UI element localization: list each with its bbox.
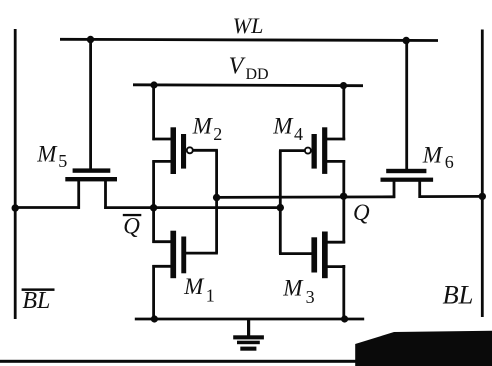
wire Qbar right segment (M5 to right inverter gates) [104,206,280,209]
transistor M4 channel bar [322,127,327,174]
wire BL rail (right vertical) [481,30,484,318]
wire M4 drain stub [326,160,345,163]
wire VDD to M2 source [152,85,155,140]
wire M6 right source stub [418,181,421,199]
label M1 [183,274,215,306]
wire M1 source to ground [152,265,155,319]
junction dot left gates to Q wire [213,194,220,201]
black redaction blob bottom right [355,331,492,366]
svg-text:1: 1 [206,286,215,306]
label VDD [229,54,269,84]
label M2 [192,113,223,144]
transistor M1 channel bar [170,231,176,279]
svg-text:M: M [36,141,58,166]
wire ground stub [247,319,250,337]
wire VDD horizontal [133,83,363,87]
label BLbar [22,288,55,314]
wire Q right segment (M6 to BL) [419,195,483,198]
wire M5 gate from WL [89,40,92,170]
transistor M6 channel bar [381,178,434,182]
wire M1 source stub [152,265,171,268]
junction dot Qbar node [150,204,157,211]
wire M5 left source stub [77,180,80,209]
junction dot ground right [341,315,348,322]
svg-text:2: 2 [213,124,222,144]
wire M4 gate stub [279,149,305,152]
junction dot WL left [87,36,94,43]
label Qbar [123,214,142,239]
transistor M2 channel bar [171,127,177,174]
svg-text:M: M [272,114,294,139]
wire M3 gate stub [279,252,312,255]
wire M4 source stub [326,138,345,141]
svg-text:V: V [229,54,246,80]
label M6 [422,142,454,172]
junction dot VDD right [340,82,347,89]
junction dot Q node [340,193,347,200]
wire BLbar rail (left vertical) [14,29,17,319]
wire M3 source to ground [342,265,345,319]
svg-text:M: M [192,113,214,138]
svg-text:M: M [282,276,304,301]
wire right inverter gate vertical [279,151,282,254]
wire M2 drain to Qbar node to M1 drain [152,160,155,243]
label M3 [282,276,314,308]
bottom border line [0,360,492,363]
transistor M1 gate bar [181,237,186,274]
svg-text:Q: Q [123,214,140,239]
wire ground rail horizontal [135,318,364,321]
junction dot BL node [479,193,486,200]
svg-text:3: 3 [306,287,315,307]
junction dot WL right [403,37,410,44]
transistor M6 gate bar [386,169,426,173]
wire M3 drain stub [326,241,345,244]
svg-text:BL: BL [443,280,474,310]
svg-text:DD: DD [246,66,269,83]
junction dot BLbar node [12,204,19,211]
ground bar 3 [240,347,256,351]
wire left inverter gate vertical [215,150,218,253]
wire M3 source stub [326,265,345,268]
svg-text:4: 4 [294,124,303,144]
wire Q left segment (left inverter gates to M6) [217,195,396,198]
ground bar 1 [233,335,264,339]
wire M6 gate from WL [405,41,408,170]
svg-text:BL: BL [22,288,50,314]
label Q [353,200,370,225]
junction dot right gates to Qbar wire [277,204,284,211]
svg-text:Q: Q [353,200,370,225]
wire M5 right drain stub [104,180,107,209]
junction dot ground left [151,315,158,322]
label M4 [272,114,303,145]
ground bar 2 [237,341,260,345]
svg-text:5: 5 [58,151,67,171]
wire M1 drain stub [152,240,171,243]
wire M6 left drain stub [393,181,396,199]
wire M2 gate stub [193,149,218,152]
svg-text:M: M [422,142,444,167]
wire M2 drain stub [152,160,171,163]
wire M2 source stub [152,138,171,141]
transistor M3 gate bar [311,237,317,272]
svg-text:WL: WL [233,13,264,38]
transistor M4 gate bar [312,134,317,169]
transistor M3 channel bar [322,232,328,279]
wire Qbar left segment (BLbar to M5) [15,206,80,209]
label WL [233,13,264,38]
svg-text:M: M [183,274,205,299]
junction dot VDD left [150,81,157,88]
label BL [443,280,474,310]
transistor M4 PMOS bubble [305,148,311,154]
svg-text:6: 6 [445,152,454,172]
label M5 [36,141,67,171]
wire VDD to M4 source [342,86,345,141]
transistor M2 gate bar [181,134,186,169]
transistor M2 PMOS bubble [187,147,193,153]
wire M4 drain to Q node to M3 drain [342,160,345,243]
transistor M5 channel bar [65,177,117,181]
wire WL horizontal [60,39,438,40]
transistor M5 gate bar [73,168,111,172]
wire M1 gate stub [186,252,218,255]
